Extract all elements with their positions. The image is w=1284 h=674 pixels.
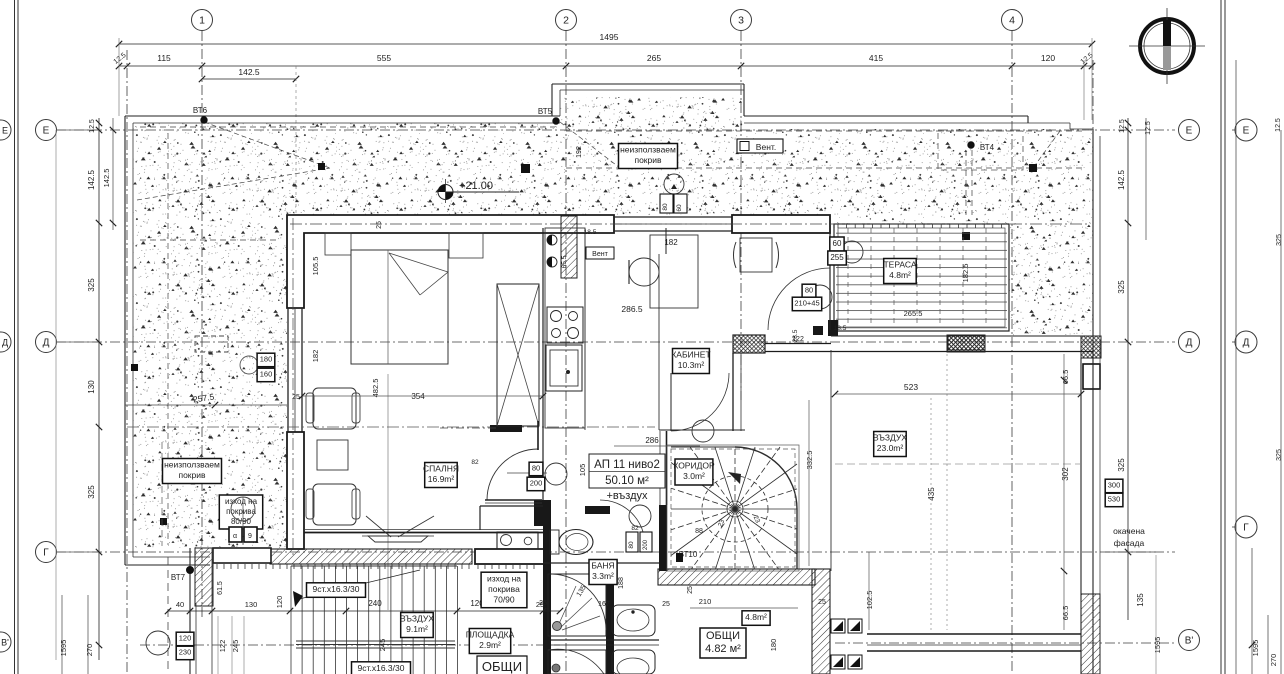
washer [497,532,538,549]
bath door arc [600,500,645,545]
grid bubble Д right [1179,332,1200,353]
wall bedroom top + left (double line band) [287,215,614,308]
svg-text:фасада: фасада [1114,538,1145,548]
svg-text:α: α [233,533,237,540]
vent circle office [692,420,714,442]
label vazduh 23 [873,432,907,457]
svg-text:4.8m²: 4.8m² [745,612,767,622]
label stair flight 1 [307,583,366,598]
svg-text:167: 167 [598,601,610,608]
svg-text:50.10 м²: 50.10 м² [605,475,649,487]
svg-text:325: 325 [1276,234,1283,246]
grid line 1 [201,31,203,620]
svg-text:415: 415 [869,53,883,63]
svg-text:покрив: покрив [178,470,206,480]
dimension chain 1495 [119,43,1092,45]
armchair 1 [313,388,356,429]
dim 180 [257,353,275,367]
svg-text:142.5: 142.5 [87,169,96,190]
hatched exterior wall band below bedroom [270,549,472,564]
svg-text:Д: Д [2,338,8,348]
svg-text:105: 105 [578,464,587,477]
right dim chain [1127,118,1129,620]
svg-text:В': В' [1185,636,1194,647]
right sheet grid bubble Е [1235,119,1257,141]
svg-text:80: 80 [662,203,669,211]
svg-text:530: 530 [1108,495,1121,504]
bath sink [612,605,655,636]
svg-text:Д: Д [1186,338,1193,349]
circle near 180/160 [240,356,258,374]
svg-text:окачена: окачена [1113,526,1145,536]
svg-text:482.5: 482.5 [371,379,380,398]
armchair 2 [313,484,356,525]
svg-text:245: 245 [231,640,240,653]
svg-text:2.9m²: 2.9m² [479,640,501,650]
label corridor [673,459,715,485]
svg-text:ВТ4: ВТ4 [980,143,995,152]
circle bottom-left [146,631,170,655]
left wall axis [292,218,294,555]
kitchen sink [546,345,582,391]
dim 210+45 [792,297,821,311]
lower bathroom fixtures (cut) [548,650,606,674]
wall left lower [287,432,304,549]
svg-text:88: 88 [695,528,703,535]
svg-text:130: 130 [245,600,258,609]
kitchen counter [545,228,585,428]
svg-text:120: 120 [179,634,192,643]
svg-text:102.5: 102.5 [865,591,874,610]
svg-text:покрив: покрив [634,155,662,165]
svg-text:325: 325 [87,485,96,499]
label bath [589,560,617,585]
roof band right [744,129,1093,336]
svg-text:+21.00: +21.00 [459,180,493,192]
dim 255 [828,251,847,265]
grid line 3 [740,31,742,400]
label roof unused 1 [619,144,678,169]
svg-text:286.5: 286.5 [621,304,643,314]
svg-text:3.0m²: 3.0m² [683,471,705,481]
kitchen vent label [586,247,614,259]
neighbour grid bubble В' [0,632,11,652]
checkered pier office [733,335,765,353]
label roof exit 70/90 [481,572,527,608]
svg-text:ВТ5: ВТ5 [538,107,553,116]
door office-terrace [768,268,830,330]
roof area top-right upper [560,97,744,215]
terrace top tick row [837,224,839,228]
svg-text:ТЕРАСА: ТЕРАСА [883,260,916,270]
svg-text:105.5: 105.5 [311,257,320,276]
right sheet border [1220,0,1222,674]
building edge axis right [1092,60,1094,340]
svg-text:ОБЩИ: ОБЩИ [706,630,740,642]
svg-text:КОРИДОР: КОРИДОР [673,461,715,471]
svg-text:12.5: 12.5 [1145,121,1152,135]
svg-text:325: 325 [1117,458,1126,472]
big room bottom wall [867,633,1081,635]
north compass [1140,19,1194,73]
grid line 4 [1011,31,1013,674]
grid bubble 1 [192,10,213,31]
svg-text:122: 122 [218,640,227,653]
svg-text:Вент: Вент [592,251,608,258]
tick row under bedroom band [216,564,218,569]
spiral staircase [671,447,797,569]
circle terrace door [841,241,863,263]
svg-text:Д: Д [1243,338,1250,349]
svg-text:182: 182 [311,350,320,363]
dim 80/200 bath rotated [626,532,638,552]
svg-text:ВТ6: ВТ6 [193,106,208,115]
hatched pier kitchen/office [561,216,577,278]
svg-text:70/90: 70/90 [493,594,515,604]
svg-text:332.5: 332.5 [805,451,814,470]
lower stair flight (full-length treads) [291,566,458,674]
svg-text:3: 3 [738,15,744,27]
office left wall segment [658,254,660,430]
svg-text:60: 60 [833,239,842,248]
hatched pier left bottom [195,548,213,606]
label obshti [700,628,746,658]
svg-text:555: 555 [377,53,391,63]
office chair 2 [740,238,772,272]
bed [351,250,448,364]
svg-text:1: 1 [199,15,205,27]
svg-text:270: 270 [85,644,94,657]
svg-text:200: 200 [643,539,649,550]
svg-text:192: 192 [576,146,583,158]
svg-text:65.5: 65.5 [561,255,568,268]
svg-text:120: 120 [1041,53,1055,63]
shower [548,574,606,636]
roof drain squares [318,163,325,170]
svg-text:255: 255 [830,253,844,262]
svg-text:25: 25 [662,601,670,608]
svg-text:28.5: 28.5 [792,329,799,342]
vent box roof [737,139,783,153]
svg-text:325: 325 [1276,449,1283,461]
svg-text:+въздух: +въздух [607,490,648,502]
label stair flight 2 [352,662,411,674]
dimension chain segments [119,65,1092,67]
dim 300 [1105,479,1123,493]
hatched band stair bottom [658,569,815,585]
building edge axis left [126,50,128,674]
dim 180/60 roof [660,194,673,213]
balcony dashed verticals bottom-left [167,557,169,674]
svg-text:Д: Д [43,338,50,349]
svg-text:неизползваем: неизползваем [620,145,676,155]
svg-text:240: 240 [368,599,382,608]
grid row E [56,129,1175,131]
svg-text:Г: Г [43,548,49,559]
dim 80 door [802,284,816,298]
office right wall down [732,353,734,431]
landing edge lines [296,640,455,642]
svg-text:435: 435 [927,487,936,501]
svg-text:9ст.х16.3/30: 9ст.х16.3/30 [313,584,360,594]
nightstand right [449,233,483,258]
dim 120 [176,632,194,646]
window left wall [287,308,289,432]
window office top [614,216,732,218]
label terrace [883,259,916,284]
grid bubble Г left [36,542,57,563]
svg-text:неизползваем: неизползваем [164,460,220,470]
neighbour grid bubble Д [0,332,11,352]
svg-text:40: 40 [176,600,184,609]
svg-text:18.5: 18.5 [834,325,847,332]
left neighbour sheet border [14,0,16,674]
nightstand left [325,233,351,255]
big room right wall [1080,358,1082,674]
bath block walls [480,505,543,507]
stair shaft left wall [659,431,661,505]
left dim chain [98,118,100,660]
corridor wall stub [585,506,610,514]
grid bubble 3 [731,10,752,31]
svg-text:180: 180 [769,639,778,652]
svg-text:ВЪЗДУХ: ВЪЗДУХ [400,614,434,624]
svg-text:12.5: 12.5 [89,119,96,133]
svg-text:120: 120 [275,596,284,609]
terrace deck [836,226,1007,330]
svg-text:182.5: 182.5 [961,264,970,283]
svg-text:286: 286 [645,436,659,445]
dim 80 entry [529,462,543,476]
svg-text:23.0m²: 23.0m² [877,443,904,453]
level mark +21.00 [438,185,453,200]
svg-text:245: 245 [378,639,387,652]
svg-text:25: 25 [292,394,300,401]
svg-text:25: 25 [376,221,383,229]
checkered pier 1 [948,336,985,350]
svg-text:66.5: 66.5 [1061,606,1070,621]
label roof exit 80/90 [219,495,262,529]
svg-text:25: 25 [687,586,694,594]
roof outline upper right section [552,83,744,85]
svg-text:210+45: 210+45 [794,299,819,308]
svg-text:Г: Г [1243,523,1249,534]
svg-text:3.3m²: 3.3m² [592,571,614,581]
roof outline right band [744,115,1028,117]
svg-text:9: 9 [248,533,252,540]
svg-text:130: 130 [87,380,96,394]
dashed interior line y427 [127,426,655,428]
office chair 1 [629,258,659,286]
grid bubble Е right [1179,120,1200,141]
hatched shaft column right of stair [812,569,830,674]
circle roof label [664,174,684,194]
grid bubble 4 [1002,10,1023,31]
svg-text:ОБЩИ: ОБЩИ [482,659,522,674]
svg-text:270: 270 [1269,654,1278,667]
checkered pier 2 [1081,336,1101,358]
svg-text:1495: 1495 [600,32,619,42]
svg-text:4.82 м²: 4.82 м² [705,643,741,655]
bottom dim line [168,610,560,612]
svg-text:ВТ7: ВТ7 [171,573,186,582]
label landing [466,629,515,654]
grid row B1 [140,644,560,646]
svg-text:200: 200 [530,479,543,488]
svg-text:АП 11 ниво2: АП 11 ниво2 [594,459,660,471]
bedroom south wall inner edge [304,529,543,531]
svg-text:1595: 1595 [1153,637,1162,654]
vent circle corridor [629,505,651,527]
svg-text:12.5: 12.5 [1119,119,1126,133]
roof slope lines [204,122,330,168]
wardrobe [497,284,539,426]
svg-text:1595: 1595 [59,640,68,657]
dashed parapet box BT4 [938,131,1023,170]
entry wall vertical [534,500,546,526]
column pier right wall [1083,364,1100,389]
stair arrow [728,472,741,484]
right sheet grid bubble Д [1235,331,1257,353]
svg-text:изход на: изход на [487,573,521,583]
svg-text:82: 82 [471,459,479,466]
dimension 142.5 top [202,78,296,80]
svg-text:210: 210 [699,597,712,606]
svg-text:61.5: 61.5 [217,581,224,595]
svg-text:142.5: 142.5 [238,67,260,77]
svg-text:135: 135 [1136,593,1145,607]
grid line 2 [565,31,567,674]
kitchen risers [547,235,557,245]
coffee table [317,440,348,470]
dim 60 [830,237,844,251]
svg-text:325: 325 [1117,280,1126,294]
svg-text:188: 188 [618,577,625,589]
grid bubble 2 [556,10,577,31]
stove [547,307,583,343]
svg-text:БАНЯ: БАНЯ [591,561,614,571]
svg-text:142.5: 142.5 [1117,169,1126,190]
svg-text:302: 302 [1061,467,1070,481]
neighbour grid bubble Е [0,120,11,140]
svg-text:160: 160 [260,370,273,379]
svg-text:КАБИНЕТ: КАБИНЕТ [671,350,710,360]
svg-text:ПЛОЩАДКА: ПЛОЩАДКА [466,630,515,640]
kitchen wall vertical [542,228,544,500]
svg-text:60: 60 [676,204,683,212]
svg-text:25: 25 [818,599,826,606]
svg-text:Е: Е [1186,126,1193,137]
wall row y336 right section [831,335,1093,337]
wall office top [732,215,830,233]
stair arrow lower [295,570,420,600]
label roof unused 2 [163,459,222,484]
svg-text:16.9m²: 16.9m² [428,474,455,484]
grid bubble Е left [36,120,57,141]
svg-text:25: 25 [539,600,547,607]
svg-text:142.5: 142.5 [102,169,111,188]
svg-text:80: 80 [805,286,813,295]
door corridor arc [671,373,729,431]
svg-text:300: 300 [1108,481,1121,490]
svg-text:Вент.: Вент. [756,142,776,152]
roof outline left [125,115,560,117]
svg-text:10.3m²: 10.3m² [678,360,705,370]
label vazduh 9.1 [400,613,434,638]
svg-text:182: 182 [664,238,678,247]
parapet dashed line [140,126,555,128]
wall axis [290,223,1090,225]
svg-text:ВЪЗДУХ: ВЪЗДУХ [873,433,907,443]
grid bubble В' right [1179,630,1200,651]
svg-text:Е: Е [43,126,50,137]
double socket symbols [831,619,845,633]
right sheet grid bubble Г [1235,516,1257,538]
svg-text:В': В' [1,638,9,648]
big room left wall [830,350,832,571]
svg-text:115: 115 [157,53,171,63]
folding table (V symbol) [366,516,391,537]
vent circle entry [545,463,567,485]
office right wall (terrace) [829,228,831,331]
svg-text:4.8m²: 4.8m² [889,270,911,280]
dim 160 [257,368,275,382]
svg-text:265.5: 265.5 [904,309,923,318]
svg-text:4: 4 [1009,15,1015,27]
grid row D [56,341,1175,343]
svg-text:265: 265 [647,53,661,63]
svg-text:9.1m²: 9.1m² [406,624,428,634]
svg-text:12.5: 12.5 [1275,118,1282,132]
svg-text:230: 230 [179,648,192,657]
svg-text:18.5: 18.5 [584,229,597,236]
white wall band corridor [475,549,549,564]
label bedroom [423,463,459,488]
dashed rect at grid 1-D [195,336,228,352]
svg-text:80: 80 [532,464,540,473]
toilet [550,530,559,554]
svg-text:Е: Е [2,126,8,136]
hatched part of right wall [1081,594,1100,674]
roof area left (stippled) [133,123,560,548]
label obshti bottom-left [477,656,527,674]
label 4.8 [742,611,770,626]
svg-text:354: 354 [411,392,425,401]
svg-text:325: 325 [87,278,96,292]
dim 200 entry [527,477,545,491]
office desk [650,235,698,308]
grid row G [56,551,1175,553]
svg-text:Е: Е [1243,126,1250,137]
white wall band left [213,548,271,563]
svg-text:2: 2 [563,15,569,27]
corridor walls [659,429,745,431]
dim 530 [1105,493,1123,507]
svg-text:180: 180 [260,355,273,364]
label apartment АП 11 [589,454,665,488]
checkered pier terrace bottom [947,335,985,352]
svg-text:523: 523 [904,382,918,392]
grid bubble Д left [36,332,57,353]
svg-text:9ст.х16.3/30: 9ст.х16.3/30 [358,663,405,673]
entry door [487,449,538,500]
window ticks below corridor wall [477,565,479,569]
dim 230 [176,646,194,660]
label office [671,349,710,374]
svg-text:СПАЛНЯ: СПАЛНЯ [423,464,459,474]
svg-text:80: 80 [628,541,635,549]
svg-text:покрива: покрива [488,584,520,594]
